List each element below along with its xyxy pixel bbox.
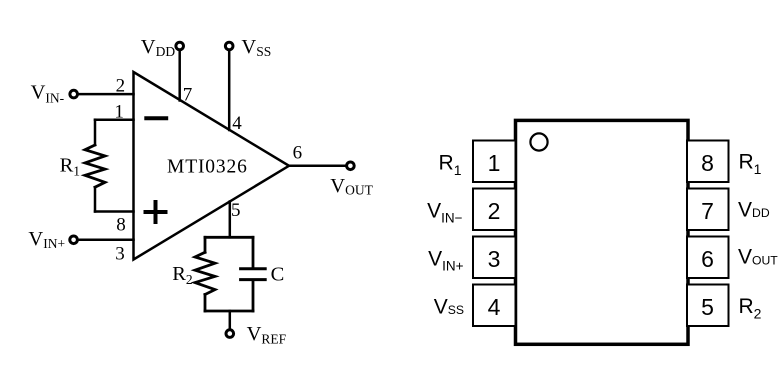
- package pin label VDD (pin 7): [738, 198, 770, 221]
- pin box 3: [473, 237, 516, 279]
- resistor R2: [195, 252, 215, 294]
- terminal circle V_IN-: [70, 90, 78, 98]
- wire: pin 8 horizontal: [95, 210, 134, 213]
- svg-text:4: 4: [488, 294, 501, 320]
- svg-text:R1: R1: [439, 151, 462, 178]
- pin number 6: [293, 142, 303, 163]
- pin 1 indicator circle: [530, 133, 547, 150]
- pin number 3: [115, 243, 125, 264]
- svg-text:MTI0326: MTI0326: [167, 156, 248, 177]
- svg-text:7: 7: [183, 85, 193, 106]
- label R1: [60, 155, 80, 179]
- svg-text:R1: R1: [60, 155, 80, 179]
- pin number 3 (package): [488, 246, 501, 272]
- svg-text:R2: R2: [172, 263, 192, 287]
- label V_REF: [247, 323, 287, 346]
- svg-text:5: 5: [701, 294, 714, 320]
- svg-text:3: 3: [115, 243, 125, 264]
- pin number 1: [114, 102, 124, 123]
- terminal circle V_IN+: [70, 236, 78, 244]
- pin box 8: [687, 141, 729, 183]
- svg-text:VDD: VDD: [738, 198, 770, 221]
- pin number 5: [231, 200, 241, 221]
- label V_DD: [141, 36, 176, 59]
- svg-text:VOUT: VOUT: [330, 175, 373, 198]
- package pin label R1 (right, pin 8): [739, 151, 762, 177]
- svg-text:1: 1: [488, 150, 501, 176]
- svg-text:VDD: VDD: [141, 36, 176, 59]
- svg-text:VIN+: VIN+: [28, 228, 65, 251]
- op-amp part number label MTI0326: [167, 156, 248, 177]
- terminal circle V_SS: [225, 42, 233, 50]
- terminal circle V_REF: [226, 330, 234, 338]
- wire: R2 branch top: [204, 237, 207, 252]
- svg-text:2: 2: [488, 198, 501, 224]
- svg-text:1: 1: [114, 102, 124, 123]
- svg-text:5: 5: [231, 200, 241, 221]
- wire: V_REF stub: [229, 311, 232, 329]
- pin number 8 (package): [701, 150, 714, 176]
- wire: R1 top vertical: [94, 120, 97, 145]
- package pin label VIN+ (pin 3): [428, 247, 464, 273]
- op-amp non-inverting input plus sign: [146, 202, 166, 222]
- svg-text:R2: R2: [739, 295, 762, 321]
- svg-text:3: 3: [488, 246, 501, 272]
- svg-text:VIN+: VIN+: [428, 247, 464, 273]
- wire: V_DD to pin 7: [178, 51, 181, 101]
- pin box 2: [473, 189, 516, 231]
- package pin label VIN- (pin 2): [427, 199, 463, 225]
- terminal circle V_DD: [176, 42, 184, 50]
- op-amp inverting input minus sign: [146, 116, 166, 120]
- pin number 7: [183, 85, 193, 106]
- terminal circle V_OUT: [347, 162, 355, 170]
- wire: RC network top bar: [205, 236, 253, 239]
- pin box 4: [473, 285, 516, 327]
- pin number 2: [116, 75, 126, 96]
- pin number 2 (package): [488, 198, 501, 224]
- wire: pin 5 vertical: [229, 202, 232, 238]
- resistor R1: [85, 145, 105, 187]
- pin box 7: [687, 189, 729, 231]
- svg-text:8: 8: [116, 215, 126, 236]
- svg-text:2: 2: [116, 75, 126, 96]
- package pin label R1 (left, pin 1): [439, 151, 462, 178]
- wire: C branch top: [252, 237, 255, 267]
- svg-text:4: 4: [232, 113, 242, 134]
- svg-text:6: 6: [293, 142, 303, 163]
- wire: R1 bottom vertical: [94, 187, 97, 211]
- package pin label R2 (right, pin 5): [739, 295, 762, 321]
- op-amp U1 (MTI0326 triangle): [134, 72, 290, 260]
- svg-text:VIN-: VIN-: [31, 81, 65, 105]
- svg-text:VIN−: VIN−: [427, 199, 463, 225]
- pin number 5 (package): [701, 294, 714, 320]
- wire: RC network bottom bar: [205, 310, 253, 313]
- pin number 1 (package): [488, 150, 501, 176]
- pin number 4: [232, 113, 242, 134]
- IC package body U1: [516, 120, 689, 344]
- wire: C branch bottom: [252, 281, 255, 311]
- pin box 6: [687, 237, 729, 279]
- label C: [271, 264, 285, 286]
- svg-text:VREF: VREF: [247, 323, 287, 346]
- capacitor C: [241, 269, 266, 280]
- package pin label VOUT (pin 6): [738, 245, 778, 268]
- wire: V_SS to pin 4: [228, 51, 231, 130]
- wire: pin 1 horizontal: [95, 118, 134, 121]
- svg-text:7: 7: [701, 198, 714, 224]
- label V_IN+: [28, 228, 65, 251]
- svg-text:R1: R1: [739, 151, 762, 177]
- svg-text:VSS: VSS: [434, 295, 464, 318]
- svg-text:6: 6: [701, 246, 714, 272]
- wire: V_IN- to pin 2: [79, 93, 134, 96]
- wire: V_IN+ to pin 3: [79, 239, 134, 242]
- package pin label VSS (pin 4): [434, 295, 464, 318]
- svg-text:VOUT: VOUT: [738, 245, 778, 268]
- svg-text:8: 8: [701, 150, 714, 176]
- pin box 5: [687, 285, 729, 327]
- pin number 8: [116, 215, 126, 236]
- pin box 1: [473, 141, 516, 183]
- wire: R2 branch bottom: [204, 295, 207, 312]
- pin number 4 (package): [488, 294, 501, 320]
- label V_OUT: [330, 175, 373, 198]
- pin number 6 (package): [701, 246, 714, 272]
- pin number 7 (package): [701, 198, 714, 224]
- label V_IN-: [31, 81, 65, 105]
- label R2: [172, 263, 192, 287]
- wire: output pin 6: [288, 165, 345, 168]
- label V_SS: [241, 36, 271, 59]
- svg-text:C: C: [271, 264, 285, 286]
- svg-text:VSS: VSS: [241, 36, 271, 59]
